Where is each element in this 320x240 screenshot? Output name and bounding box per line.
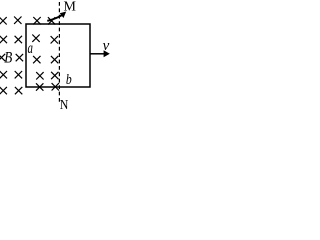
loop rectangle	[26, 24, 90, 87]
velocity arrow	[90, 53, 105, 55]
field cross row3 col2	[16, 54, 23, 61]
svg-text:b: b	[66, 71, 72, 88]
field cross on bottom edge col3	[36, 83, 43, 90]
field cross row1 col2	[14, 17, 21, 24]
field cross row2 col4	[51, 36, 58, 43]
field cross row5 col1	[0, 87, 7, 94]
svg-text:B: B	[4, 49, 12, 66]
svg-text:M: M	[64, 0, 77, 15]
field cross row2 col2	[15, 36, 22, 43]
label N	[60, 96, 69, 112]
svg-text:a: a	[28, 39, 34, 57]
field cross row4 col1	[0, 71, 7, 78]
field cross row3 col3	[33, 56, 40, 63]
field cross row1 col1	[0, 17, 7, 24]
label a	[28, 39, 34, 57]
label B	[4, 49, 12, 66]
dashed boundary line MN	[58, 2, 60, 104]
label b	[66, 71, 72, 88]
field cross row1 col3	[33, 17, 40, 24]
field cross on bottom edge col4	[52, 83, 59, 90]
field cross row4 col2	[15, 71, 22, 78]
field cross row3 col4	[51, 56, 58, 63]
field cross row4 col3	[36, 72, 43, 79]
field cross row4 col4	[51, 72, 58, 79]
field cross row1 col4	[48, 17, 55, 24]
arrow at top crossing boundary	[47, 15, 62, 21]
svg-text:N: N	[60, 96, 69, 110]
field cross row5 col2	[15, 87, 22, 94]
field cross row2 col1	[0, 36, 7, 43]
field cross row3 col1	[0, 54, 5, 61]
svg-text:v: v	[103, 38, 110, 54]
field cross row2 col3	[32, 35, 39, 42]
